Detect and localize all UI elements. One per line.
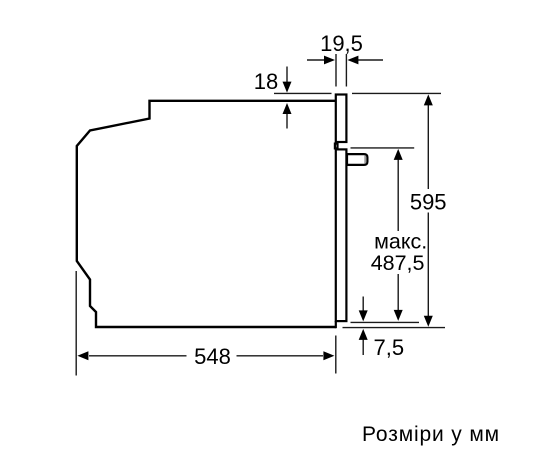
svg-text:7,5: 7,5 xyxy=(374,335,405,360)
svg-text:19,5: 19,5 xyxy=(320,31,363,56)
svg-text:595: 595 xyxy=(410,190,447,215)
svg-text:548: 548 xyxy=(194,344,231,369)
svg-text:487,5: 487,5 xyxy=(371,251,425,275)
svg-text:Розміри у мм: Розміри у мм xyxy=(362,423,500,446)
svg-text:18: 18 xyxy=(254,69,278,94)
